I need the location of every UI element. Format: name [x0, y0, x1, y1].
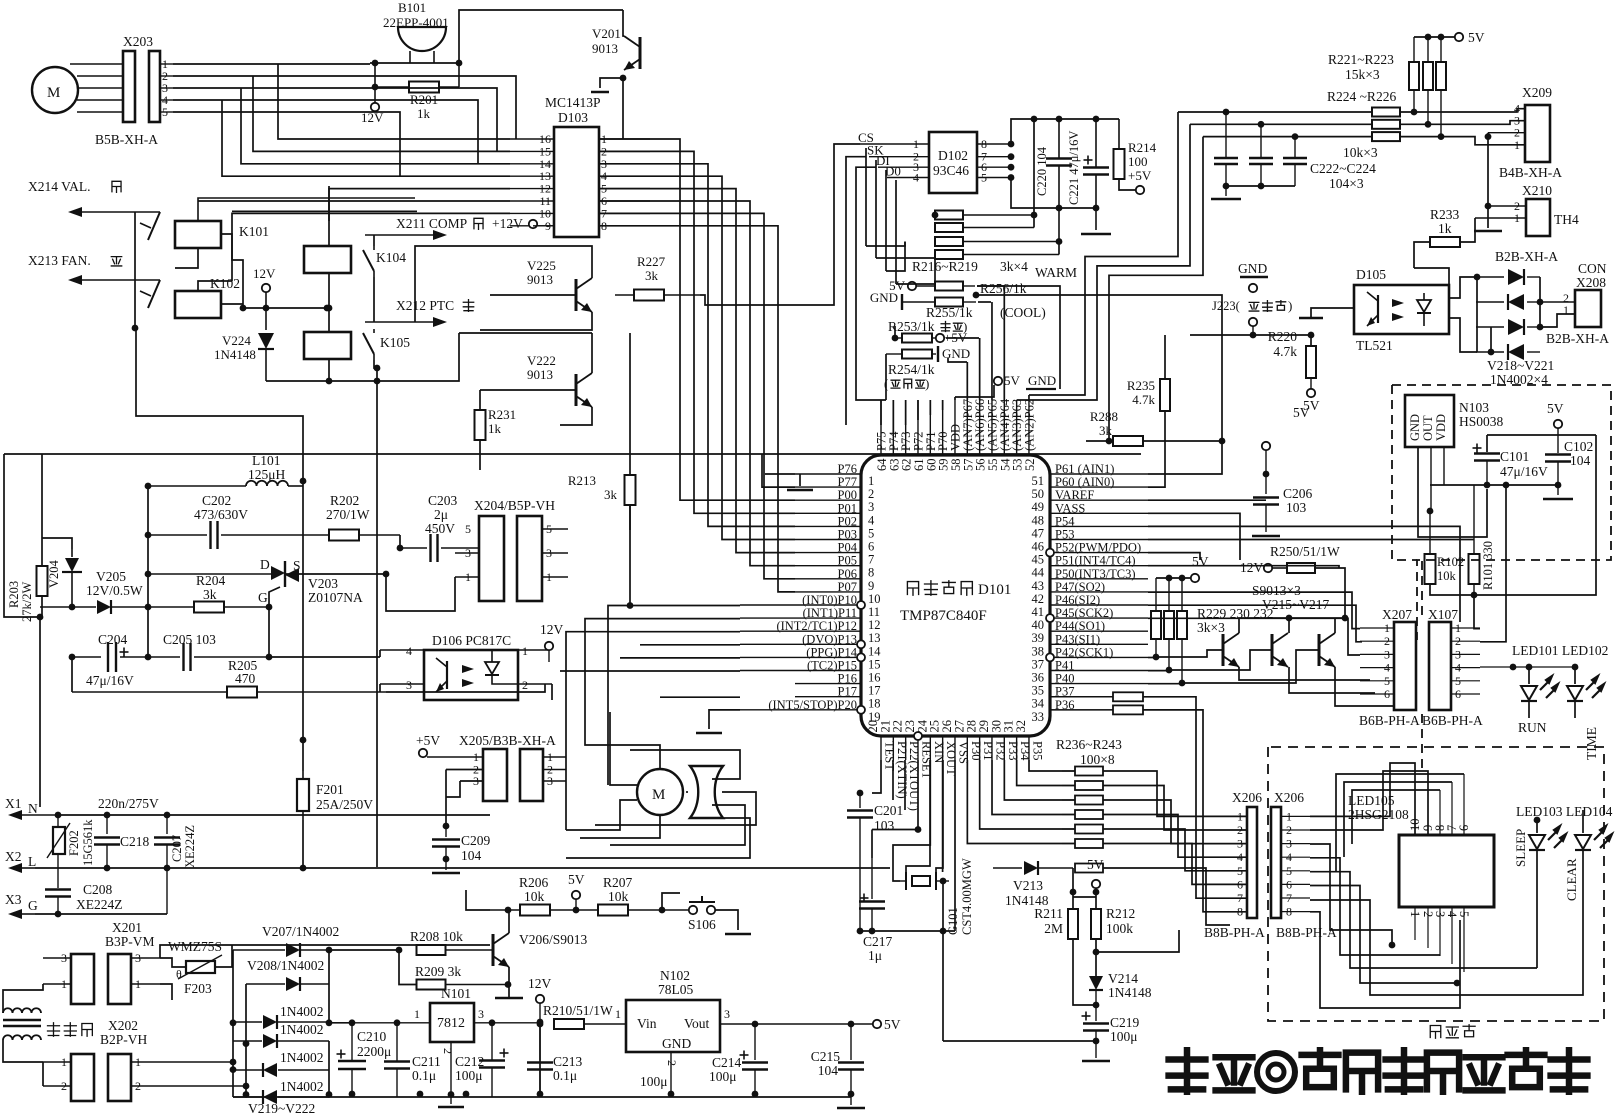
- svg-text:F201: F201: [316, 782, 344, 797]
- svg-text:R236~R243: R236~R243: [1056, 737, 1122, 752]
- svg-text:51: 51: [1032, 474, 1045, 488]
- svg-text:0.1μ: 0.1μ: [412, 1068, 436, 1083]
- wire R288 junction: [1221, 421, 1223, 470]
- svg-text:5V: 5V: [1293, 405, 1310, 420]
- ground MCU P20: [709, 710, 740, 729]
- svg-text:RUN: RUN: [1518, 720, 1547, 735]
- svg-text:5V: 5V: [1087, 857, 1104, 872]
- svg-text:3k: 3k: [645, 268, 659, 283]
- microcontroller U D101 TMP87C840F: [861, 455, 1050, 736]
- svg-text:C220 104: C220 104: [1035, 146, 1049, 196]
- svg-text:5: 5: [1237, 864, 1243, 878]
- wire GND pin down: [670, 1052, 672, 1094]
- svg-text:R288: R288: [1090, 409, 1118, 424]
- svg-text:33: 33: [1032, 710, 1045, 724]
- svg-text:1: 1: [522, 644, 528, 658]
- svg-text:450V: 450V: [425, 521, 455, 536]
- svg-text:3k: 3k: [604, 487, 618, 502]
- svg-text:V203: V203: [308, 576, 338, 591]
- svg-text:8: 8: [868, 566, 874, 580]
- resistor R256 1k: [935, 282, 963, 291]
- transistor V216: [1271, 634, 1274, 666]
- svg-text:X212 PTC: X212 PTC: [396, 298, 454, 313]
- svg-text:V207/1N4002: V207/1N4002: [262, 924, 339, 939]
- svg-text:RESET: RESET: [919, 741, 933, 780]
- wire P61 to R288: [1148, 470, 1222, 474]
- wire 5V rail R221: [1414, 36, 1455, 38]
- resistor R214 100 +5V: [1114, 149, 1125, 179]
- fuse F202 15G561k: [53, 827, 65, 854]
- svg-text:S9013×3: S9013×3: [1252, 583, 1301, 598]
- resistor R211 2M: [1068, 909, 1078, 939]
- svg-text:+5V: +5V: [1128, 168, 1152, 183]
- svg-text:X202: X202: [108, 1018, 138, 1033]
- svg-text:SLEEP: SLEEP: [1513, 829, 1528, 867]
- switch S106: [689, 906, 697, 914]
- svg-text:103: 103: [874, 818, 895, 833]
- svg-text:3: 3: [868, 500, 874, 514]
- svg-text:44: 44: [1032, 566, 1045, 580]
- svg-text:1: 1: [868, 474, 874, 488]
- svg-text:D101: D101: [978, 582, 1011, 598]
- svg-text:35: 35: [1032, 684, 1045, 698]
- svg-text:2: 2: [441, 1048, 455, 1054]
- svg-text:P35: P35: [1030, 741, 1044, 760]
- wire D103 pin11 to K101: [198, 200, 510, 202]
- svg-text:14: 14: [868, 644, 881, 658]
- svg-text:15G561k: 15G561k: [81, 819, 95, 866]
- svg-text:4: 4: [868, 513, 875, 527]
- svg-text:1: 1: [1563, 303, 1569, 317]
- svg-text:42: 42: [1032, 592, 1045, 606]
- terminal 5V x207: [1191, 574, 1199, 582]
- ground stub V201: [600, 78, 623, 88]
- svg-text:L: L: [28, 854, 36, 869]
- svg-text:P31: P31: [981, 741, 995, 760]
- terminal 12V D106: [545, 642, 553, 650]
- svg-text:D0: D0: [885, 164, 901, 179]
- svg-text:V222: V222: [527, 353, 556, 368]
- svg-text:48: 48: [1032, 513, 1045, 527]
- resistor R102 10k: [1425, 554, 1436, 584]
- wire AN pins to pullup rows: [948, 358, 967, 362]
- arrow X211: [365, 234, 435, 236]
- capacitor C102 104: [1557, 435, 1559, 453]
- LED101 RUN: [1480, 666, 1575, 668]
- wire WARM COOL runs: [977, 286, 1060, 389]
- svg-text:100×8: 100×8: [1080, 752, 1115, 767]
- svg-text:104: 104: [461, 848, 482, 863]
- svg-text:C210: C210: [357, 1029, 387, 1044]
- ground C221: [1081, 233, 1111, 236]
- wire IR 5V rail: [1487, 434, 1596, 436]
- svg-text:OUT: OUT: [1421, 415, 1435, 441]
- resistor R231 1k vertical: [479, 390, 481, 410]
- wire Vout to 5V: [720, 1023, 873, 1025]
- wire D103 input rows to MCU P00-P07: [599, 139, 795, 500]
- svg-text:3: 3: [406, 678, 412, 692]
- svg-text:C202: C202: [202, 493, 231, 508]
- svg-text:C201: C201: [874, 803, 903, 818]
- svg-text:93C46: 93C46: [933, 163, 969, 178]
- crystal G101 CST4.00MGW: [912, 876, 930, 886]
- svg-text:X206: X206: [1274, 790, 1304, 805]
- svg-text:(: (: [884, 377, 888, 391]
- relay K104 coil: [304, 246, 351, 273]
- svg-text:2HSG2108: 2HSG2108: [1348, 807, 1409, 822]
- svg-text:V219~V222: V219~V222: [248, 1101, 315, 1116]
- svg-text:X206: X206: [1232, 790, 1262, 805]
- resistor R254 1k: [902, 350, 932, 359]
- transformer: [3, 1008, 41, 1013]
- wire V204 to V205 row: [69, 604, 76, 611]
- svg-text:R227: R227: [637, 254, 666, 269]
- svg-text:52: 52: [1023, 459, 1037, 472]
- svg-text:15k×3: 15k×3: [1345, 67, 1380, 82]
- svg-text:V201: V201: [592, 26, 621, 41]
- svg-text:100μ: 100μ: [640, 1074, 668, 1089]
- svg-text:3k×3: 3k×3: [1197, 620, 1225, 635]
- svg-text:B4B-XH-A: B4B-XH-A: [1499, 165, 1562, 180]
- svg-text:15: 15: [868, 657, 881, 671]
- svg-text:1: 1: [1514, 138, 1520, 152]
- svg-text:1: 1: [1237, 809, 1243, 823]
- wire P54 P53 to IR: [1148, 526, 1460, 622]
- wire buzzer top rail: [370, 62, 459, 64]
- svg-text:V208/1N4002: V208/1N4002: [247, 958, 324, 973]
- node V201 emitter: [620, 75, 627, 82]
- wire emitters to X207: [1239, 667, 1370, 680]
- capacitor C208 XE224Z: [57, 885, 59, 888]
- svg-text:38: 38: [1032, 644, 1045, 658]
- svg-text:49: 49: [1032, 500, 1045, 514]
- wire P60 to R235: [1148, 445, 1165, 487]
- svg-text:3: 3: [1237, 837, 1243, 851]
- svg-text:X209: X209: [1522, 85, 1552, 100]
- svg-text:N102: N102: [660, 968, 690, 983]
- motor M (fan motor): [32, 67, 78, 113]
- svg-text:470: 470: [235, 671, 256, 686]
- svg-text:40: 40: [1032, 618, 1045, 632]
- svg-text:270/1W: 270/1W: [326, 507, 370, 522]
- svg-text:2: 2: [1237, 823, 1243, 837]
- wire mains N rail: [58, 814, 490, 816]
- wire pullup column: [1033, 119, 1035, 228]
- svg-text:1: 1: [615, 1007, 621, 1021]
- svg-text:B2B-XH-A: B2B-XH-A: [1495, 249, 1558, 264]
- wire X201 to fuse F203: [160, 945, 490, 958]
- svg-text:M: M: [47, 85, 60, 101]
- wire IR outputs down: [1473, 595, 1475, 620]
- wire D106 pin3/4 left: [379, 650, 381, 657]
- svg-text:K101: K101: [239, 224, 269, 239]
- wire IR out to X107 pins: [1474, 620, 1480, 629]
- relay K102 coil: [175, 291, 221, 318]
- watermark branding: [1169, 1050, 1206, 1091]
- svg-text:R101 330: R101 330: [1481, 541, 1495, 590]
- svg-text:B6B-PH-A: B6B-PH-A: [1422, 713, 1483, 728]
- svg-text:5V: 5V: [568, 872, 585, 887]
- wire MCU left INT pins fanout: [630, 605, 740, 607]
- wire V222 emitter down: [560, 407, 592, 425]
- fan vane symbol: [690, 766, 723, 818]
- resistor R255 1k: [935, 298, 963, 307]
- svg-text:R235: R235: [1127, 378, 1155, 393]
- svg-text:X1: X1: [5, 796, 22, 811]
- svg-text:C211: C211: [412, 1054, 441, 1069]
- svg-text:10k×3: 10k×3: [1343, 145, 1378, 160]
- svg-text:V205: V205: [96, 569, 126, 584]
- wire C217 rail: [860, 930, 955, 932]
- svg-text:17: 17: [868, 684, 881, 698]
- svg-text:10k: 10k: [524, 889, 545, 904]
- wire D103 output rows left extensions: [278, 64, 510, 139]
- svg-text:2: 2: [665, 1060, 679, 1066]
- svg-text:C101: C101: [1500, 449, 1529, 464]
- capacitor C218: [106, 815, 108, 834]
- relay K105 coil: [304, 332, 351, 359]
- arrow X213: [80, 279, 160, 281]
- svg-text:WARM: WARM: [1035, 265, 1077, 280]
- svg-text:10k: 10k: [608, 889, 629, 904]
- terminal 5V V213: [1092, 880, 1100, 888]
- svg-text:GND: GND: [1028, 373, 1056, 388]
- wire V207 node down: [328, 950, 330, 1023]
- wire bus relay switches down: [376, 390, 378, 867]
- wire N103 pins down: [1418, 447, 1487, 537]
- node relay 12V rail: [240, 305, 247, 312]
- svg-text:47μ/16V: 47μ/16V: [86, 673, 134, 688]
- wire R235 J223 link: [1164, 335, 1166, 340]
- svg-text:104: 104: [1570, 453, 1591, 468]
- svg-text:D103: D103: [558, 110, 588, 125]
- arrow X214: [80, 211, 160, 213]
- svg-text:B2P-VH: B2P-VH: [100, 1032, 148, 1047]
- wire X211 arrow to K104 switch: [373, 235, 375, 246]
- node C202: [145, 532, 152, 539]
- svg-text:P30: P30: [969, 741, 983, 760]
- dashed separator main/display board: [1421, 561, 1423, 617]
- svg-text:1: 1: [414, 1007, 420, 1021]
- svg-text:1N4148: 1N4148: [214, 347, 256, 362]
- wire G rail: [35, 913, 167, 915]
- svg-text:VSS: VSS: [956, 741, 970, 764]
- svg-text:R203: R203: [7, 581, 21, 608]
- wire sensor lines to MCU AN pins: [1029, 112, 1178, 395]
- svg-text:CLEAR: CLEAR: [1564, 858, 1579, 901]
- svg-text:R204: R204: [196, 573, 226, 588]
- svg-text:V214: V214: [1108, 971, 1138, 986]
- svg-text:X201: X201: [112, 920, 142, 935]
- svg-text:R214: R214: [1128, 140, 1157, 155]
- terminal 5V S106: [572, 891, 580, 899]
- wire X204 pin1 to V203: [386, 574, 455, 611]
- svg-text:(COOL): (COOL): [1000, 305, 1046, 320]
- wire P30-P35 to R236 rows: [1029, 760, 1075, 771]
- svg-text:XOUT: XOUT: [944, 741, 958, 776]
- wire resistor bottoms to bases: [1155, 639, 1157, 657]
- svg-text:100: 100: [1128, 154, 1148, 169]
- svg-text:X2: X2: [5, 849, 22, 864]
- terminal 12V: [371, 103, 379, 111]
- svg-text:K102: K102: [210, 276, 240, 291]
- capacitor C201 103: [857, 790, 864, 797]
- svg-text:CON: CON: [1578, 261, 1607, 276]
- svg-text:B3P-VM: B3P-VM: [105, 934, 155, 949]
- svg-text:+12V: +12V: [492, 216, 523, 231]
- wire cap bottom rail: [1011, 178, 1096, 209]
- svg-text:θ: θ: [176, 967, 182, 981]
- svg-text:100μ: 100μ: [1110, 1029, 1138, 1044]
- wire 12V node: [536, 995, 544, 1003]
- svg-text:): ): [925, 376, 929, 391]
- svg-text:1N4002: 1N4002: [280, 1050, 324, 1065]
- wire MCU top pins: [880, 400, 882, 425]
- capacitor C206 103: [1262, 442, 1270, 450]
- svg-text:100μ: 100μ: [455, 1068, 483, 1083]
- svg-text:X211 COMP: X211 COMP: [396, 216, 467, 231]
- svg-text:C209: C209: [461, 833, 491, 848]
- svg-text:D102: D102: [938, 148, 968, 163]
- svg-text:D: D: [260, 557, 270, 572]
- svg-text:R213: R213: [568, 473, 596, 488]
- svg-text:100μ: 100μ: [709, 1069, 737, 1084]
- node V204-R203: [37, 614, 44, 621]
- display board dashed box: [1268, 747, 1604, 1021]
- svg-text:V225: V225: [527, 258, 556, 273]
- svg-text:X205/B3B-XH-A: X205/B3B-XH-A: [459, 733, 556, 748]
- wire IR bottom rail: [1430, 435, 1596, 595]
- svg-text:100k: 100k: [1106, 921, 1133, 936]
- capacitor C217 1u: [860, 897, 869, 899]
- svg-text:R216~R219: R216~R219: [912, 259, 978, 274]
- svg-text:10: 10: [868, 592, 881, 606]
- wire IR junction rail: [1430, 484, 1558, 486]
- svg-text:N103: N103: [1459, 400, 1489, 415]
- svg-text:X208: X208: [1576, 275, 1606, 290]
- svg-text:12V: 12V: [1240, 560, 1264, 575]
- capacitor C101 47u/16V: [1473, 447, 1482, 449]
- svg-text:XE224Z: XE224Z: [76, 897, 123, 912]
- svg-text:): ): [1288, 298, 1292, 313]
- svg-text:GND: GND: [1238, 261, 1267, 276]
- wire V225: [415, 246, 592, 322]
- wire top loop power: [4, 453, 1141, 455]
- svg-text:C207: C207: [170, 835, 184, 862]
- IC D102 93C46: [929, 132, 977, 193]
- svg-text:X204/B5P-VH: X204/B5P-VH: [474, 498, 555, 513]
- svg-text:V204: V204: [47, 559, 61, 588]
- arrow X212: [365, 321, 435, 323]
- svg-text:18: 18: [868, 697, 881, 711]
- svg-text:34: 34: [1032, 697, 1045, 711]
- terminal 5V IR: [1554, 420, 1562, 428]
- svg-text:2M: 2M: [1044, 921, 1063, 936]
- wire K102-K101 left common: [134, 212, 136, 328]
- svg-text:GND: GND: [942, 346, 970, 361]
- svg-text:F203: F203: [184, 981, 212, 996]
- LED102 TIME: [1574, 667, 1576, 684]
- arrow X3: [20, 913, 35, 915]
- svg-text:7: 7: [868, 553, 874, 567]
- svg-text:47μ/16V: 47μ/16V: [1500, 464, 1548, 479]
- svg-text:X210: X210: [1522, 183, 1552, 198]
- svg-text:2: 2: [868, 487, 874, 501]
- switch K104: [363, 250, 374, 271]
- svg-text:S106: S106: [688, 917, 716, 932]
- svg-text:R207: R207: [603, 875, 633, 890]
- svg-text:R208 10k: R208 10k: [410, 929, 463, 944]
- relay K101 coil: [175, 221, 221, 248]
- ground D105 input: [1311, 308, 1354, 318]
- arrow X2: [20, 867, 35, 869]
- svg-text:1N4002: 1N4002: [280, 1079, 324, 1094]
- svg-text:C214: C214: [712, 1055, 742, 1070]
- wire C205 node to S: [268, 607, 270, 657]
- wire R233 to D105 region: [1414, 268, 1449, 285]
- IR receiver dashed module box: [1392, 385, 1611, 640]
- svg-text:V224: V224: [222, 333, 251, 348]
- wire VASS down: [1148, 513, 1240, 560]
- svg-text:R210/51/1W: R210/51/1W: [543, 1003, 613, 1018]
- svg-text:C218: C218: [120, 834, 150, 849]
- svg-text:C102: C102: [1564, 439, 1593, 454]
- wire D103 pin9 +12V: [533, 225, 554, 227]
- svg-text:K104: K104: [376, 250, 406, 265]
- diode V214 1N4148 vertical: [1089, 976, 1103, 990]
- svg-text:5: 5: [465, 522, 471, 536]
- svg-text:LED105: LED105: [1348, 793, 1395, 808]
- wires R236 network to X206: [1103, 771, 1247, 816]
- svg-text:V213: V213: [1013, 878, 1043, 893]
- svg-text:Vout: Vout: [684, 1016, 710, 1031]
- svg-text:12: 12: [868, 618, 881, 632]
- svg-text:9013: 9013: [527, 367, 553, 382]
- svg-text:46: 46: [1032, 540, 1045, 554]
- svg-text:N: N: [28, 801, 38, 816]
- svg-text:MC1413P: MC1413P: [545, 95, 601, 110]
- wire rows 215 227 to D102 cols: [886, 242, 905, 272]
- svg-text:7812: 7812: [437, 1016, 465, 1031]
- svg-text:1k: 1k: [488, 421, 502, 436]
- svg-text:R202: R202: [330, 493, 359, 508]
- svg-text:R233: R233: [1430, 207, 1460, 222]
- resistor R212 100k: [1091, 909, 1101, 939]
- transistor V215: [1222, 634, 1225, 666]
- wire cap bottoms to ground: [1226, 185, 1295, 187]
- wire bus X203 to D103 output rows: [173, 63, 370, 65]
- svg-text:C206: C206: [1283, 486, 1313, 501]
- wires motor loops: [585, 700, 660, 769]
- svg-text:TMP87C840F: TMP87C840F: [900, 608, 987, 624]
- terminal 12V relays: [262, 284, 270, 292]
- svg-text:J223(: J223(: [1212, 299, 1240, 313]
- wire mains L rail: [35, 867, 107, 869]
- motor M louver: [637, 769, 683, 815]
- svg-text:GND: GND: [870, 290, 898, 305]
- wire 5V node: [1070, 889, 1077, 896]
- svg-text:X203: X203: [123, 34, 153, 49]
- wire D103 pin10 to K102: [232, 213, 510, 281]
- wire VDD to 5V: [955, 385, 994, 397]
- svg-text:1N4002: 1N4002: [280, 1004, 324, 1019]
- svg-text:XIN: XIN: [932, 741, 946, 763]
- capacitor C219 100u: [1082, 1015, 1091, 1017]
- wire P52 P51: [1148, 553, 1200, 560]
- svg-text:125μH: 125μH: [248, 467, 285, 482]
- svg-text:3: 3: [478, 1007, 484, 1021]
- svg-text:41: 41: [1032, 605, 1045, 619]
